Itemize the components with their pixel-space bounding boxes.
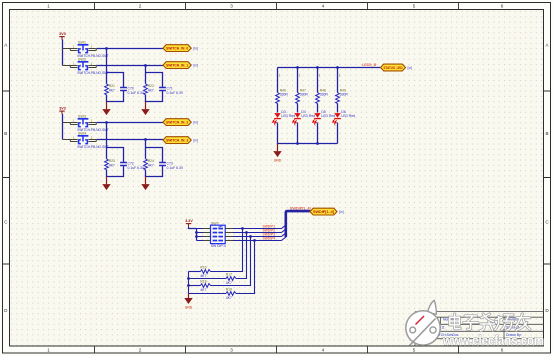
svg-text:3V3: 3V3 bbox=[59, 107, 66, 111]
svg-text:SWITCH-PB-NO-SMT: SWITCH-PB-NO-SMT bbox=[77, 71, 109, 75]
svg-text:www.elecfans.com: www.elecfans.com bbox=[442, 333, 544, 349]
wire DIP row2 (SWDIP2) bbox=[225, 232, 281, 234]
svg-text:SWDIP[1..4]: SWDIP[1..4] bbox=[313, 210, 334, 214]
svg-text:1: 1 bbox=[279, 74, 281, 78]
svg-text:3V3: 3V3 bbox=[59, 32, 66, 36]
power port 3V3 bbox=[59, 107, 66, 115]
wire down to RC pair bbox=[106, 49, 108, 73]
port SWITCH_IN_1 bbox=[163, 62, 198, 69]
wire 3.3V rail bbox=[196, 229, 198, 241]
svg-text:R48: R48 bbox=[320, 88, 326, 92]
capacitor C73 bbox=[159, 162, 184, 170]
junction row4/drop4 bbox=[253, 239, 256, 242]
LED D6 bbox=[333, 110, 356, 127]
svg-text:330R: 330R bbox=[300, 93, 309, 97]
svg-text:B: B bbox=[4, 131, 7, 136]
ground RC loop 1 bbox=[102, 177, 110, 191]
svg-text:4K7: 4K7 bbox=[200, 274, 206, 278]
wire net SWITCH_IN_2 bbox=[97, 122, 163, 124]
LED D5 bbox=[313, 110, 336, 127]
ground LED block bbox=[273, 144, 282, 163]
watermark chinese characters bbox=[450, 314, 530, 331]
capacitor C71 bbox=[159, 87, 184, 95]
svg-text:SWDIP[1..4]: SWDIP[1..4] bbox=[290, 207, 311, 211]
wire DIP row4 (SWDIP4) bbox=[225, 240, 281, 242]
capacitor C70 bbox=[120, 87, 145, 95]
DIP right pin stubs bbox=[225, 229, 233, 241]
svg-text:[In]: [In] bbox=[193, 121, 198, 125]
svg-text:R49: R49 bbox=[340, 88, 346, 92]
junction bus/branch2 bbox=[296, 66, 299, 69]
DIP switch SW7 bbox=[211, 221, 226, 248]
svg-text:2: 2 bbox=[139, 348, 142, 353]
port SWITCH_IN_0 bbox=[163, 45, 198, 52]
wire drop1 to R16 bbox=[211, 229, 243, 272]
wire down to RC pair bbox=[145, 66, 147, 73]
svg-text:LED Red: LED Red bbox=[341, 114, 355, 118]
svg-text:5: 5 bbox=[413, 348, 416, 353]
junction SWITCH_IN_1 / RC bbox=[144, 64, 147, 67]
wire R16 row left bbox=[189, 271, 201, 273]
switch SW3 bbox=[63, 115, 109, 132]
watermark logo right eye bbox=[430, 327, 436, 333]
svg-text:GND: GND bbox=[274, 158, 282, 162]
svg-text:[In]: [In] bbox=[193, 139, 198, 143]
svg-text:4K7: 4K7 bbox=[226, 281, 232, 285]
svg-text:0.1uF 6.3V: 0.1uF 6.3V bbox=[167, 166, 184, 170]
svg-text:C72: C72 bbox=[128, 162, 134, 166]
svg-text:R21: R21 bbox=[109, 84, 115, 88]
junction rail/branch3 bbox=[316, 142, 319, 145]
junction bus/branch4 bbox=[336, 66, 339, 69]
wire net SWITCH_IN_1 bbox=[97, 65, 163, 67]
svg-text:C73: C73 bbox=[167, 162, 173, 166]
svg-text:330R: 330R bbox=[280, 93, 289, 97]
wire RC loop 2 bbox=[146, 73, 163, 102]
wire down to RC pair bbox=[106, 123, 108, 148]
wire 3V3 rail bbox=[62, 114, 64, 140]
svg-text:[In]: [In] bbox=[339, 210, 344, 214]
svg-text:SWDIP4: SWDIP4 bbox=[263, 237, 276, 241]
resistor R16 bbox=[200, 266, 210, 278]
LED D3 bbox=[273, 110, 296, 127]
svg-text:R19: R19 bbox=[226, 288, 232, 292]
bus entry row2 bbox=[282, 229, 286, 232]
switch SW1 bbox=[63, 41, 109, 58]
DIP left pin stubs bbox=[203, 229, 211, 241]
watermark logo red stroke bbox=[416, 316, 425, 325]
wire LED branch 1 bbox=[277, 68, 279, 144]
resistor R18 bbox=[200, 280, 210, 292]
resistor R22 bbox=[144, 84, 154, 95]
svg-text:3: 3 bbox=[230, 348, 233, 353]
bus SWDIP[1..4] bbox=[286, 211, 310, 237]
resistor R19 bbox=[226, 288, 236, 300]
svg-text:STATUS_LED: STATUS_LED bbox=[384, 66, 403, 70]
svg-text:2: 2 bbox=[139, 4, 142, 9]
junction gnd rail/R17 bbox=[187, 277, 190, 280]
svg-text:R17: R17 bbox=[226, 273, 232, 277]
resistor R48 bbox=[316, 88, 329, 103]
watermark logo left eye bbox=[410, 327, 416, 333]
svg-text:6: 6 bbox=[501, 4, 504, 9]
wire net SWITCH_IN_0 bbox=[97, 48, 163, 50]
junction rail/row2 bbox=[195, 231, 198, 234]
svg-text:4: 4 bbox=[322, 348, 325, 353]
svg-text:R24: R24 bbox=[148, 159, 154, 163]
junction gnd rail/R18 bbox=[187, 284, 190, 287]
svg-text:4K7: 4K7 bbox=[148, 89, 154, 93]
junction SWITCH_IN_3 / RC bbox=[144, 138, 147, 141]
wire 3.3V feed bbox=[189, 227, 197, 229]
svg-text:SWITCH_IN_2: SWITCH_IN_2 bbox=[166, 121, 188, 125]
switch SW4 bbox=[63, 132, 109, 149]
wire RC loop 1 bbox=[107, 73, 124, 102]
resistor R21 bbox=[105, 84, 115, 95]
svg-text:[In]: [In] bbox=[193, 64, 198, 68]
ground resistor network bbox=[184, 294, 193, 310]
wire R18 row left bbox=[189, 285, 201, 287]
svg-text:B: B bbox=[545, 131, 548, 136]
power port 3V3 bbox=[59, 32, 66, 40]
svg-text:R23: R23 bbox=[109, 159, 115, 163]
svg-text:GND: GND bbox=[185, 306, 193, 310]
svg-text:4K7: 4K7 bbox=[226, 296, 232, 300]
svg-text:R47: R47 bbox=[300, 88, 306, 92]
power port 3.3V bbox=[185, 219, 193, 227]
svg-text:SW DIP-4: SW DIP-4 bbox=[211, 244, 226, 248]
watermark logo tail bbox=[427, 300, 436, 314]
port SWITCH_IN_3 bbox=[163, 137, 198, 144]
svg-text:1: 1 bbox=[319, 74, 321, 78]
resistor R47 bbox=[296, 88, 309, 103]
ground RC loop 1 bbox=[102, 102, 110, 116]
bus entry row1 bbox=[282, 225, 286, 228]
port SWDIP[1..4] bbox=[310, 208, 344, 215]
resistor R24 bbox=[144, 159, 154, 170]
junction SWITCH_IN_2 / RC bbox=[105, 121, 108, 124]
svg-text:1: 1 bbox=[47, 4, 50, 9]
wire DIP left pins bbox=[197, 229, 211, 241]
svg-text:4K7: 4K7 bbox=[109, 164, 115, 168]
svg-text:LED Red: LED Red bbox=[281, 114, 295, 118]
svg-text:330R: 330R bbox=[320, 93, 329, 97]
svg-text:R16: R16 bbox=[200, 266, 206, 270]
svg-text:4: 4 bbox=[322, 4, 325, 9]
junction bus/branch3 bbox=[316, 66, 319, 69]
svg-text:R22: R22 bbox=[148, 84, 154, 88]
junction row3/drop3 bbox=[249, 235, 252, 238]
resistor R17 bbox=[226, 273, 236, 285]
svg-text:LED5_B: LED5_B bbox=[362, 63, 377, 67]
svg-text:[In]: [In] bbox=[408, 66, 413, 70]
svg-text:0.1uF 6.3V: 0.1uF 6.3V bbox=[167, 91, 184, 95]
bus entry row3 bbox=[282, 233, 286, 236]
wire DIP row1 (SWDIP1) bbox=[225, 228, 281, 230]
junction row2/drop2 bbox=[245, 231, 248, 234]
junction row1/drop1 bbox=[241, 227, 244, 230]
svg-text:1: 1 bbox=[299, 74, 301, 78]
title block texts bbox=[417, 313, 522, 337]
wire RC loop 1 bbox=[107, 148, 124, 177]
wire drop2 to R17 bbox=[236, 233, 247, 279]
svg-text:4K7: 4K7 bbox=[109, 89, 115, 93]
svg-text:SWITCH-PB-NO-SMT: SWITCH-PB-NO-SMT bbox=[77, 145, 109, 149]
svg-text:0.1uF 6.3V: 0.1uF 6.3V bbox=[128, 166, 145, 170]
capacitor C72 bbox=[120, 162, 145, 170]
svg-text:R18: R18 bbox=[200, 280, 206, 284]
ground RC loop 2 bbox=[141, 177, 149, 191]
wire net SWITCH_IN_3 bbox=[97, 139, 163, 141]
svg-text:4K7: 4K7 bbox=[200, 288, 206, 292]
wire LED branch 2 bbox=[297, 68, 299, 144]
watermark logo bubble bbox=[406, 311, 440, 345]
wire drop4 to R19 bbox=[236, 241, 255, 294]
svg-text:5: 5 bbox=[413, 4, 416, 9]
switch SW2 bbox=[63, 58, 109, 75]
junction rail/branch2 bbox=[296, 142, 299, 145]
resistor R23 bbox=[105, 159, 115, 170]
svg-text:LED Red: LED Red bbox=[321, 114, 335, 118]
svg-text:0.1uF 6.3V: 0.1uF 6.3V bbox=[128, 91, 145, 95]
svg-text:R46: R46 bbox=[280, 88, 286, 92]
svg-text:C70: C70 bbox=[128, 87, 134, 91]
wire LED top bus bbox=[278, 67, 381, 69]
wire LED bottom rail bbox=[278, 143, 338, 145]
resistor R49 bbox=[336, 88, 349, 103]
svg-text:SWITCH_IN_3: SWITCH_IN_3 bbox=[166, 139, 188, 143]
wire GND rail resistor network bbox=[188, 272, 190, 294]
svg-text:LED Red: LED Red bbox=[301, 114, 315, 118]
watermark logo slash bbox=[410, 319, 436, 346]
wire LED branch 3 bbox=[317, 68, 319, 144]
wire drop3 to R18 bbox=[211, 237, 251, 286]
svg-text:1: 1 bbox=[339, 74, 341, 78]
svg-text:C71: C71 bbox=[167, 87, 173, 91]
wire LED branch 4 bbox=[337, 68, 339, 144]
port STATUS_LED bbox=[381, 64, 413, 71]
bus entry row4 bbox=[282, 237, 286, 240]
svg-text:4K7: 4K7 bbox=[148, 164, 154, 168]
ground RC loop 2 bbox=[141, 102, 149, 116]
wire down to RC pair bbox=[145, 140, 147, 148]
svg-text:SWITCH_IN_0: SWITCH_IN_0 bbox=[166, 47, 188, 51]
wire R17 row left bbox=[189, 278, 227, 280]
wire R19 row left bbox=[189, 293, 227, 295]
resistor R46 bbox=[276, 88, 289, 103]
wire RC loop 2 bbox=[146, 148, 163, 177]
LED D4 bbox=[293, 110, 316, 127]
junction SWITCH_IN_0 / RC bbox=[105, 47, 108, 50]
wire 3V3 rail bbox=[62, 40, 64, 66]
port SWITCH_IN_2 bbox=[163, 119, 198, 126]
svg-text:3: 3 bbox=[230, 4, 233, 9]
svg-text:[In]: [In] bbox=[193, 47, 198, 51]
junction rail/row3 bbox=[195, 235, 198, 238]
wire DIP row3 (SWDIP3) bbox=[225, 236, 281, 238]
svg-text:SWITCH_IN_1: SWITCH_IN_1 bbox=[166, 64, 188, 68]
svg-text:3.3V: 3.3V bbox=[185, 219, 193, 223]
svg-text:330R: 330R bbox=[340, 93, 349, 97]
svg-text:1: 1 bbox=[47, 348, 50, 353]
